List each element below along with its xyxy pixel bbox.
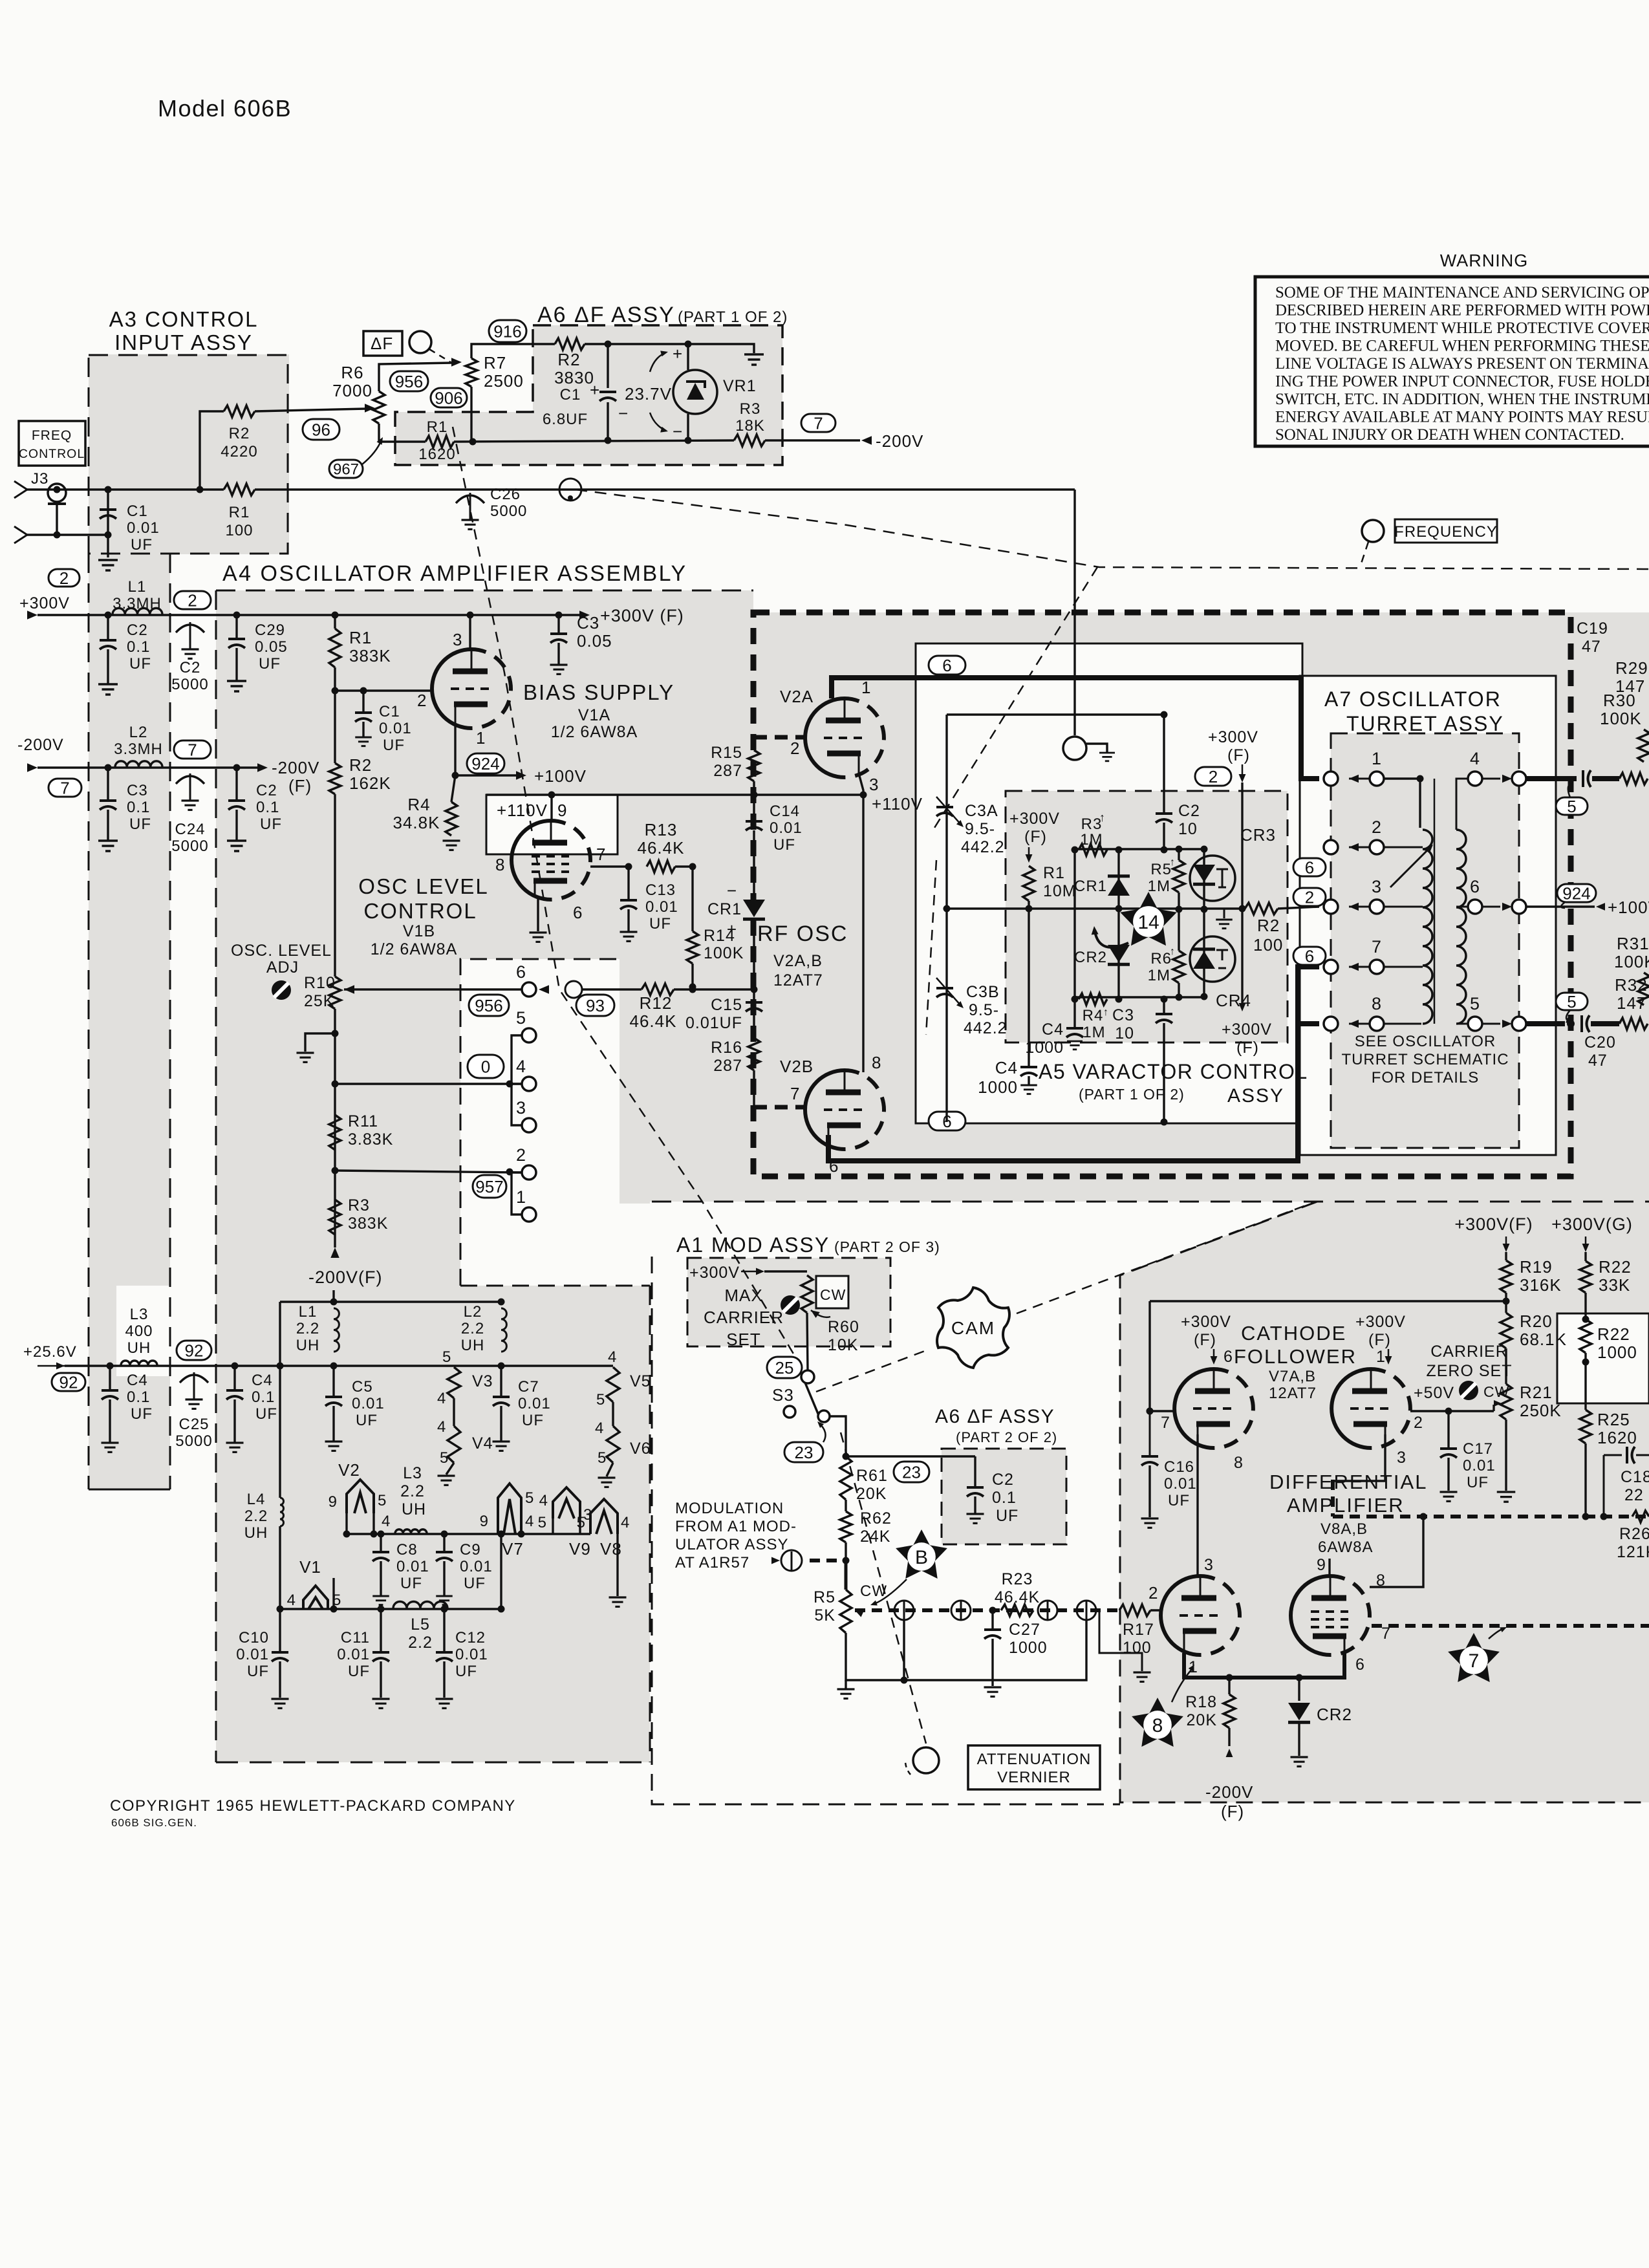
capacitor C29 0.05UF xyxy=(235,615,237,638)
wire A5 top interior xyxy=(947,713,1164,715)
resistor R20 68.1K xyxy=(1500,1313,1512,1348)
wire R21 to ground xyxy=(1505,1420,1507,1491)
wire L1 L2 top rail xyxy=(280,1301,501,1302)
svg-text:R22: R22 xyxy=(1599,1257,1632,1277)
svg-text:2: 2 xyxy=(1305,887,1314,907)
A4 lower filament-choke shaded block xyxy=(216,1202,650,1762)
svg-text:R2: R2 xyxy=(1257,916,1280,935)
oval 6 (A5 bottom-left) xyxy=(929,1112,965,1130)
svg-text:+: + xyxy=(673,344,683,363)
svg-text:CATHODE: CATHODE xyxy=(1241,1322,1346,1345)
svg-text:R18: R18 xyxy=(1185,1693,1217,1711)
svg-text:7000: 7000 xyxy=(332,381,372,400)
svg-text:UF: UF xyxy=(247,1663,269,1680)
svg-text:96: 96 xyxy=(312,420,330,439)
A7 secondary top xyxy=(1456,779,1468,830)
svg-text:R32: R32 xyxy=(1615,975,1648,995)
svg-text:C3: C3 xyxy=(127,782,148,799)
oscillator section heavy dashed border xyxy=(753,612,1571,1176)
oval 6 (A5 top-left) xyxy=(929,656,965,675)
wire R16 to pin7 row xyxy=(753,1070,755,1107)
white notch around L3 400UH xyxy=(116,1286,170,1376)
svg-text:L5: L5 xyxy=(411,1615,430,1634)
svg-text:-200V: -200V xyxy=(1205,1782,1253,1802)
svg-text:ADJ: ADJ xyxy=(266,958,299,977)
potentiometer carrier zero screw xyxy=(1459,1381,1478,1400)
svg-text:1M: 1M xyxy=(1148,967,1170,984)
wire CR1 to C15 xyxy=(753,920,755,1001)
svg-text:+100V: +100V xyxy=(534,766,587,786)
svg-text:V1A: V1A xyxy=(578,706,610,724)
svg-text:V1B: V1B xyxy=(403,922,435,940)
svg-text:+110V: +110V xyxy=(872,794,923,814)
svg-text:B: B xyxy=(915,1547,928,1568)
svg-text:R3: R3 xyxy=(348,1196,370,1215)
svg-text:250K: 250K xyxy=(1520,1401,1562,1420)
feed-through circle on wire xyxy=(559,479,581,501)
svg-text:R19: R19 xyxy=(1520,1257,1553,1277)
capacitor C11 0.01UF xyxy=(380,1609,382,1651)
svg-text:5K: 5K xyxy=(814,1606,835,1625)
svg-text:C24: C24 xyxy=(175,821,205,838)
svg-text:ATTENUATION: ATTENUATION xyxy=(977,1751,1092,1768)
svg-text:6AW8A: 6AW8A xyxy=(1318,1539,1373,1556)
svg-text:46.4K: 46.4K xyxy=(630,1011,677,1031)
arrow arc to minus xyxy=(650,413,666,431)
inductor L5 2.2 xyxy=(393,1602,447,1609)
svg-text:L3: L3 xyxy=(130,1306,149,1323)
svg-text:34.8K: 34.8K xyxy=(393,813,440,832)
svg-text:9.5-: 9.5- xyxy=(965,820,995,838)
switch S3 contact top xyxy=(801,1370,814,1383)
svg-text:+: + xyxy=(727,920,737,939)
oval 92 (rail) xyxy=(177,1341,211,1360)
svg-text:UF: UF xyxy=(348,1663,370,1680)
curved arrow 924 xyxy=(1561,902,1565,908)
svg-text:SONAL INJURY OR DEATH WHEN CON: SONAL INJURY OR DEATH WHEN CONTACTED. xyxy=(1275,426,1624,444)
arrow +300V V7A xyxy=(1213,1349,1215,1358)
A7 secondary tap 6 xyxy=(1456,906,1468,908)
svg-text:(F): (F) xyxy=(1221,1802,1244,1821)
dashed linkage to C3A C3B xyxy=(934,567,1097,828)
svg-text:UF: UF xyxy=(129,655,151,673)
oscillator section shaded field xyxy=(753,612,1649,1202)
inductor L1 3.3MH xyxy=(113,608,162,614)
svg-text:R2: R2 xyxy=(349,755,372,775)
wire C19 to R29 xyxy=(1592,776,1619,781)
svg-text:9: 9 xyxy=(480,1513,489,1530)
svg-text:3: 3 xyxy=(453,630,462,649)
svg-text:100K: 100K xyxy=(1614,952,1649,971)
svg-text:7: 7 xyxy=(1161,1414,1170,1432)
junction VR1 bottom xyxy=(685,437,692,444)
A7 secondary winding xyxy=(1456,830,1466,1024)
oval 924 xyxy=(467,753,504,773)
svg-text:UH: UH xyxy=(296,1337,320,1354)
svg-text:FOR DETAILS: FOR DETAILS xyxy=(1372,1069,1480,1086)
svg-text:18K: 18K xyxy=(735,417,765,435)
junction C27 xyxy=(989,1607,997,1614)
svg-text:5: 5 xyxy=(538,1514,547,1531)
resistor R26 121K xyxy=(1632,1511,1649,1522)
switch contact 6 xyxy=(522,982,536,997)
inductor L4 2.2UH xyxy=(279,1366,281,1498)
svg-text:C3A: C3A xyxy=(965,802,998,820)
svg-text:100: 100 xyxy=(1253,935,1283,955)
resistor R2 162K (A4) xyxy=(329,763,341,794)
svg-text:(F): (F) xyxy=(1368,1331,1391,1349)
capacitor C4 1000 upper xyxy=(1066,1027,1083,1030)
svg-text:1/2 6AW8A: 1/2 6AW8A xyxy=(551,723,638,741)
svg-text:442.2: 442.2 xyxy=(964,1019,1008,1037)
capacitor C17 0.01UF xyxy=(1447,1411,1449,1447)
ground below C1 xyxy=(98,559,118,561)
svg-text:0.01: 0.01 xyxy=(460,1558,493,1575)
arrow -200V into wire xyxy=(861,436,872,444)
junction R22 box bottom xyxy=(1582,1359,1590,1366)
svg-text:ASSY: ASSY xyxy=(1227,1085,1284,1107)
svg-text:ULATOR ASSY: ULATOR ASSY xyxy=(675,1536,789,1553)
svg-text:+300V(F): +300V(F) xyxy=(1454,1215,1533,1234)
left column bottom border xyxy=(89,1489,170,1491)
svg-text:R62: R62 xyxy=(860,1509,892,1528)
svg-text:R10: R10 xyxy=(304,974,336,992)
heavy wire pin5 out xyxy=(1526,1021,1565,1026)
wire C3B vertical xyxy=(945,909,947,1122)
svg-text:1: 1 xyxy=(476,728,486,748)
oval 957 xyxy=(473,1175,506,1198)
capacitor C1 0.01UF (A4) xyxy=(362,691,364,711)
svg-text:C2: C2 xyxy=(1178,802,1200,820)
svg-text:(F): (F) xyxy=(1227,746,1250,764)
junction xyxy=(332,687,339,695)
A6 delta-F part2 shaded box xyxy=(942,1449,1066,1544)
svg-text:0: 0 xyxy=(481,1057,490,1076)
bridge CR3CR4 column xyxy=(1203,849,1205,997)
capacitor C8 0.01UF xyxy=(380,1534,382,1551)
wire R25 down xyxy=(1584,1443,1586,1517)
svg-text:0.1: 0.1 xyxy=(252,1388,275,1406)
wire R6 top to R7 wiper xyxy=(379,363,453,391)
tube V2A xyxy=(805,698,845,777)
svg-text:1000: 1000 xyxy=(1009,1639,1048,1657)
resistor R30 100K xyxy=(1638,729,1649,762)
A7 turret inner shaded box xyxy=(1331,733,1519,1148)
svg-text:UF: UF xyxy=(260,815,282,833)
svg-text:LINE VOLTAGE IS ALWAYS PRESENT: LINE VOLTAGE IS ALWAYS PRESENT ON TERMIN… xyxy=(1275,355,1649,373)
filament V7 xyxy=(498,1484,521,1534)
svg-text:12AT7: 12AT7 xyxy=(773,971,823,989)
svg-text:+300V: +300V xyxy=(1009,810,1060,828)
svg-text:383K: 383K xyxy=(348,1215,388,1233)
A7 contact 3 outer xyxy=(1324,900,1338,914)
svg-text:100: 100 xyxy=(225,522,253,539)
junction xyxy=(548,792,555,799)
svg-text:121K: 121K xyxy=(1617,1543,1649,1561)
A7 contact 3 inner xyxy=(1370,900,1384,914)
ground below C8 xyxy=(372,1595,389,1597)
svg-text:10: 10 xyxy=(1178,820,1198,838)
svg-text:COPYRIGHT 1965 HEWLETT-PACKAR: COPYRIGHT 1965 HEWLETT-PACKARD COMPANY xyxy=(110,1797,516,1815)
tube V1B osc level xyxy=(512,821,551,900)
svg-text:C1: C1 xyxy=(127,502,148,520)
svg-text:1000: 1000 xyxy=(1025,1039,1064,1057)
ground below V1B xyxy=(530,931,547,933)
junction xyxy=(625,863,632,870)
svg-text:+300V(G): +300V(G) xyxy=(1551,1215,1633,1234)
junction xyxy=(107,1363,114,1370)
A7 turret white box xyxy=(1300,676,1556,1155)
wire R2 down to R10 xyxy=(334,794,336,977)
svg-text:RF OSC: RF OSC xyxy=(757,922,848,946)
svg-text:23: 23 xyxy=(902,1462,921,1482)
svg-text:1: 1 xyxy=(516,1187,526,1207)
svg-text:C25: C25 xyxy=(178,1416,209,1433)
A7 variable capacitor line xyxy=(1434,779,1436,1024)
svg-text:VERNIER: VERNIER xyxy=(997,1769,1071,1786)
ground below C12 xyxy=(436,1698,453,1700)
svg-text:442.2: 442.2 xyxy=(961,838,1005,856)
junction xyxy=(605,341,612,348)
svg-text:5: 5 xyxy=(577,1514,586,1531)
wire R1 to A6 xyxy=(255,488,1075,490)
svg-text:+110V: +110V xyxy=(497,801,548,820)
svg-text:C27: C27 xyxy=(1009,1621,1040,1639)
svg-text:CR1: CR1 xyxy=(1074,878,1107,895)
wire R2 to R6 wiper xyxy=(255,409,366,411)
bridge R5R6 column xyxy=(1178,849,1180,860)
arrow into R10 wiper xyxy=(344,985,354,993)
dashed linkage S3 to attenuation vernier xyxy=(841,1432,926,1744)
heavy wire pin6 V2B to A7 pins 7-8 xyxy=(828,967,1319,1161)
heavy dashed bus diff amp xyxy=(1333,1515,1649,1518)
svg-text:287: 287 xyxy=(713,762,742,780)
wire loop vertical xyxy=(903,1619,905,1680)
svg-text:R1: R1 xyxy=(229,504,250,521)
svg-text:DESCRIBED HEREIN ARE PERFORMED: DESCRIBED HEREIN ARE PERFORMED WITH POWE… xyxy=(1275,302,1649,319)
tube V7A xyxy=(1174,1369,1214,1448)
junction pin1 node xyxy=(452,772,459,779)
svg-text:-200V: -200V xyxy=(876,431,923,451)
svg-text:CR2: CR2 xyxy=(1074,949,1107,966)
A5 varactor white box xyxy=(916,643,1302,1123)
svg-text:6.8UF: 6.8UF xyxy=(543,411,588,428)
svg-text:956: 956 xyxy=(475,996,502,1015)
svg-text:C8: C8 xyxy=(396,1541,418,1559)
junction R62 bottom xyxy=(843,1557,850,1564)
wire V8 to ground xyxy=(616,1534,618,1596)
svg-text:606B SIG.GEN.: 606B SIG.GEN. xyxy=(111,1817,197,1829)
ground below C5 xyxy=(325,1440,343,1442)
svg-text:0.01: 0.01 xyxy=(396,1558,429,1575)
resistor R13 46.4K xyxy=(647,861,675,872)
switch S3 contact right xyxy=(818,1410,830,1422)
svg-text:2: 2 xyxy=(1414,1414,1423,1432)
svg-text:R20: R20 xyxy=(1520,1312,1553,1331)
capacitor C9 0.01UF xyxy=(443,1534,445,1551)
svg-text:UH: UH xyxy=(244,1524,268,1542)
svg-text:1: 1 xyxy=(861,678,871,697)
inductor L3 2.2UH (filament) xyxy=(395,1529,427,1533)
svg-text:(F): (F) xyxy=(1236,1039,1259,1057)
wire pin2 V7B to R21 xyxy=(1410,1410,1494,1412)
svg-text:R5: R5 xyxy=(814,1588,835,1606)
svg-text:A6 ΔF ASSY: A6 ΔF ASSY xyxy=(537,303,675,327)
arrow +300V rail start xyxy=(27,610,38,619)
svg-text:L1: L1 xyxy=(299,1303,318,1321)
oval 2 (left) xyxy=(48,569,80,587)
filament V1 xyxy=(303,1586,328,1609)
capacitor C19 47 xyxy=(1582,770,1584,787)
ground below C4 A4 xyxy=(226,1442,244,1443)
svg-text:V2: V2 xyxy=(338,1460,360,1480)
resistor R19 316K xyxy=(1505,1252,1507,1260)
bridge top wire xyxy=(1075,848,1204,850)
svg-text:1M: 1M xyxy=(1080,831,1103,848)
svg-text:+300V (F): +300V (F) xyxy=(600,606,684,625)
oval 92 (left) xyxy=(52,1373,85,1391)
junction xyxy=(506,1169,513,1176)
feed-through capacitor C26 5000 xyxy=(456,495,484,503)
capacitor C4 0.1UF (A4) xyxy=(233,1366,235,1389)
tube V2B xyxy=(805,1070,845,1149)
svg-text:92: 92 xyxy=(59,1372,78,1392)
svg-text:4: 4 xyxy=(437,1390,446,1407)
arrow +300V(G) down xyxy=(1585,1237,1587,1246)
svg-text:MOVED. BE CAREFUL WHEN PERFORM: MOVED. BE CAREFUL WHEN PERFORMING THESE … xyxy=(1275,338,1649,355)
svg-text:6: 6 xyxy=(942,656,951,675)
svg-text:J3: J3 xyxy=(31,470,48,488)
svg-text:CR3: CR3 xyxy=(1240,825,1276,845)
svg-text:0.01: 0.01 xyxy=(645,898,678,916)
svg-text:R13: R13 xyxy=(645,820,678,839)
arrow -200V(F) up xyxy=(330,1247,339,1258)
svg-text:+: + xyxy=(590,380,600,400)
oval 93 xyxy=(576,995,614,1016)
heavy dashed attenuator wire xyxy=(855,1608,1120,1612)
ground below C3 xyxy=(98,839,118,842)
svg-text:0.01: 0.01 xyxy=(337,1646,370,1663)
oval 6 (right of bridge) xyxy=(1293,858,1326,876)
wire to contact 4 xyxy=(335,1083,521,1085)
svg-text:↑: ↑ xyxy=(1099,811,1106,824)
oval 924 (right) xyxy=(1557,884,1596,902)
dashed link knob to R7 xyxy=(429,349,453,363)
svg-text:956: 956 xyxy=(395,372,423,391)
svg-text:C10: C10 xyxy=(239,1629,269,1647)
switch white box dashed border bottom xyxy=(460,1285,650,1287)
svg-text:C11: C11 xyxy=(341,1629,370,1647)
wire C3A vertical xyxy=(945,715,947,909)
FREQ CONTROL box xyxy=(19,421,85,466)
potentiometer R10 25K screw xyxy=(272,980,291,1000)
ground below V8 xyxy=(609,1596,627,1598)
svg-text:20K: 20K xyxy=(856,1485,887,1503)
junction xyxy=(378,1531,385,1538)
connector J3 chevron lower xyxy=(14,526,27,543)
wire top to ground (A6) xyxy=(688,344,754,353)
svg-text:MAX: MAX xyxy=(724,1286,762,1305)
wire A6 bottom rail xyxy=(454,440,734,442)
heavy dashed mod wire xyxy=(810,1559,846,1562)
svg-text:(PART 1 OF 2): (PART 1 OF 2) xyxy=(1079,1086,1185,1103)
svg-text:CARRIER: CARRIER xyxy=(1430,1343,1508,1361)
svg-text:L3: L3 xyxy=(403,1464,422,1482)
svg-text:4: 4 xyxy=(525,1513,534,1530)
svg-text:924: 924 xyxy=(1562,883,1590,903)
svg-text:0.05: 0.05 xyxy=(255,638,288,656)
oval 5 (lower) xyxy=(1556,993,1588,1010)
wire R22 to R25 xyxy=(1584,1353,1586,1410)
oval 23 xyxy=(784,1442,823,1462)
svg-text:147: 147 xyxy=(1617,993,1646,1013)
differential amplifier dashed border xyxy=(1120,1202,1649,1802)
A7 primary winding xyxy=(1423,830,1432,1024)
svg-text:UF: UF xyxy=(649,915,671,933)
svg-text:2: 2 xyxy=(1209,767,1218,786)
feed-through circle contact6 xyxy=(565,981,582,998)
ground below V6 xyxy=(607,1463,613,1476)
diode CR1 (RF osc) xyxy=(743,900,765,917)
wire to contact 2 xyxy=(335,1171,521,1172)
svg-text:2: 2 xyxy=(59,568,69,588)
wire filament row1 xyxy=(347,1533,590,1535)
wire S3 down xyxy=(830,1416,846,1456)
svg-text:92: 92 xyxy=(185,1341,204,1360)
svg-text:R1: R1 xyxy=(1043,864,1065,882)
resistor R4 34.8K xyxy=(446,802,457,836)
A6 delta-F assy part1 shaded block xyxy=(533,325,782,465)
wire R1-R2 vertical xyxy=(334,615,336,629)
svg-text:R22: R22 xyxy=(1597,1324,1630,1344)
oval 2 (A5) xyxy=(1195,767,1231,786)
resistor R61 20K xyxy=(840,1456,852,1500)
svg-text:+100V: +100V xyxy=(1608,898,1649,917)
resistor R15 287 xyxy=(748,750,760,781)
potentiometer MAX CARRIER screw xyxy=(781,1295,800,1315)
svg-text:3: 3 xyxy=(516,1098,526,1118)
tube V7B xyxy=(1331,1369,1371,1448)
svg-text:9: 9 xyxy=(329,1493,338,1511)
capacitor C16 0.01UF xyxy=(1147,1408,1154,1415)
wire +300V rail xyxy=(38,614,580,616)
svg-text:+300V: +300V xyxy=(1181,1313,1231,1331)
A7 contact 4 outer right xyxy=(1482,778,1500,780)
wire pin1 V1A xyxy=(454,726,456,775)
diode CR2 (A5) xyxy=(1108,945,1130,962)
svg-text:5: 5 xyxy=(1567,797,1576,816)
capacitor C18 22 xyxy=(1604,1454,1622,1456)
wire circle to R12 xyxy=(582,988,641,990)
svg-text:2.2: 2.2 xyxy=(461,1320,484,1337)
svg-text:1: 1 xyxy=(1376,1348,1386,1366)
heavy stub pin8 A7 xyxy=(1298,1021,1319,1026)
svg-text:(PART 2 OF 2): (PART 2 OF 2) xyxy=(956,1429,1057,1445)
left feed-through column shaded block xyxy=(89,554,170,1491)
photodiode CR4 xyxy=(1190,936,1235,982)
ground stub A5 feedthrough xyxy=(1086,744,1107,753)
MAX CARRIER SET shaded box xyxy=(687,1258,890,1346)
svg-text:C17: C17 xyxy=(1463,1440,1493,1458)
svg-text:R11: R11 xyxy=(348,1112,378,1130)
feed-through circle attenuator xyxy=(1077,1601,1096,1620)
filament V8 xyxy=(590,1499,618,1534)
switch contact 4 xyxy=(522,1077,536,1091)
svg-text:5000: 5000 xyxy=(490,502,527,520)
svg-text:ING THE POWER INPUT CONNECTOR,: ING THE POWER INPUT CONNECTOR, FUSE HOLD… xyxy=(1275,373,1649,391)
svg-text:6: 6 xyxy=(516,962,526,982)
zener VR1 xyxy=(673,370,717,414)
